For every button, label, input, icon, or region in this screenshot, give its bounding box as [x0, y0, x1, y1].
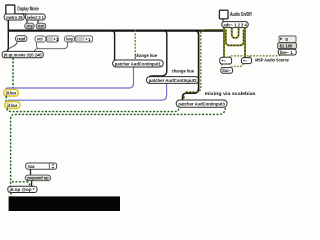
- wire main bang line horizontal: [8, 29, 225, 31]
- message prepend op: [25, 175, 50, 181]
- svg-text:select 0 1: select 0 1: [27, 15, 44, 20]
- wire select outlet1 to stop: [26, 20, 28, 23]
- svg-text:patcher AudContInput2: patcher AudContInput2: [149, 78, 198, 83]
- svg-text:jit.hue: jit.hue: [5, 91, 17, 96]
- number widget loop: [65, 36, 93, 43]
- object adc~ 1 2 3 4: [222, 22, 248, 28]
- svg-text:stop: stop: [26, 24, 33, 29]
- svg-text:adc~ 1 2 3 4: adc~ 1 2 3 4: [223, 22, 247, 27]
- object patcher AudContInput2: [146, 77, 199, 84]
- object line~: [278, 49, 296, 55]
- svg-text:$1 100: $1 100: [280, 43, 293, 48]
- object select 0 1: [25, 14, 45, 20]
- object patcher AudContInput1: [113, 60, 164, 67]
- object patcher AudContInput3: [176, 100, 227, 107]
- wire blue hue1 control: [6, 67, 134, 90]
- svg-text:0: 0: [285, 37, 288, 42]
- comment Audio On/Off: [230, 12, 252, 18]
- wire green lower loop patcher3 right outlet to jit.op: [11, 108, 226, 187]
- svg-text:vol: vol: [37, 37, 43, 42]
- wire adc out4 vertical signal: [244, 28, 246, 58]
- wire select outlet2 to start: [37, 20, 39, 23]
- wire mult left to dac: [221, 64, 223, 68]
- svg-text:read: read: [17, 36, 25, 41]
- object multiply right: [241, 58, 251, 64]
- toggle Audio On/Off: [219, 10, 228, 19]
- svg-text:mixing via scalebias: mixing via scalebias: [205, 91, 256, 97]
- wire adc outer U loop: [226, 30, 244, 46]
- svg-text:jit.qt.movie 320 240: jit.qt.movie 320 240: [3, 52, 42, 57]
- wire hue1 to hue2 green: [5, 96, 7, 102]
- toggle Display Movie: [6, 5, 15, 14]
- menu max: [26, 163, 57, 169]
- svg-text:*~: *~: [243, 58, 248, 63]
- wire movie matrix to jit.hue1 (green dashed): [12, 58, 14, 90]
- svg-text:start: start: [38, 24, 45, 29]
- comment MSP Audio Source: [255, 58, 289, 64]
- svg-text:1: 1: [88, 37, 91, 43]
- object jit.op: [8, 186, 37, 192]
- object multiply left: [220, 57, 232, 64]
- wire message to line~: [279, 48, 281, 51]
- object jit.hue 1: [4, 90, 19, 97]
- wire mult right to dac: [231, 64, 243, 68]
- wire number to message: [279, 41, 281, 44]
- svg-text:*~: *~: [222, 58, 227, 63]
- wire toggle2 to adc: [222, 19, 224, 22]
- svg-text:line~ 1.: line~ 1.: [280, 50, 294, 55]
- message $1 100: [278, 43, 297, 49]
- svg-text:change hue: change hue: [135, 53, 158, 59]
- object metro 25: [4, 14, 24, 20]
- comment change hue 2: [172, 68, 195, 74]
- wire prepend to jit.op: [31, 181, 33, 187]
- wire left vertical to movie inlet: [7, 31, 9, 52]
- comment change hue 1: [135, 53, 158, 59]
- message read: [15, 36, 27, 42]
- wire read outlet to movie: [7, 42, 17, 50]
- number widget vol: [35, 36, 59, 43]
- svg-text:jit.op @op *: jit.op @op *: [8, 187, 34, 192]
- svg-text:metro 25: metro 25: [6, 15, 23, 20]
- wire green hue2 out to patcher3 area upper: [7, 108, 179, 112]
- wire black curve to patcher2: [150, 31, 167, 77]
- wire metro outlet down: [7, 20, 9, 31]
- wire adc inner U loop: [232, 28, 239, 38]
- wire vol and loop outlets bundle: [35, 42, 68, 51]
- comment mixing via scalebias: [205, 91, 256, 97]
- svg-text:patcher AudContInput3: patcher AudContInput3: [178, 102, 225, 107]
- message start: [36, 23, 46, 29]
- svg-text:prepend op: prepend op: [27, 176, 49, 181]
- wire black bundle corner to patcher3: [183, 31, 199, 100]
- wire adc out1 vertical signal: [223, 28, 225, 58]
- svg-text:max: max: [28, 164, 35, 169]
- svg-text:MSP Audio Source: MSP Audio Source: [255, 58, 289, 64]
- wire green bundle to patcher3: [184, 30, 224, 100]
- svg-text:change hue: change hue: [172, 68, 195, 74]
- wire green drop to patcher1: [134, 30, 136, 60]
- wire black drop to patcher1: [111, 31, 115, 60]
- message stop: [25, 23, 34, 29]
- svg-text:1: 1: [56, 37, 59, 43]
- svg-text:Audio On/Off: Audio On/Off: [230, 12, 252, 18]
- wire toggle1 to select inlet: [10, 13, 27, 15]
- comment Display Movie: [17, 7, 39, 13]
- number box 0: [279, 36, 296, 42]
- svg-text:Display Movie: Display Movie: [17, 7, 39, 13]
- object jit.qt.movie 320 240: [2, 51, 43, 57]
- svg-text:dac~: dac~: [222, 68, 231, 73]
- wire menu to prepend: [30, 169, 32, 175]
- svg-text:loop: loop: [66, 37, 73, 42]
- jit.pwindow black display: [9, 196, 120, 211]
- object jit.hue 2: [5, 102, 20, 109]
- wire jit.op to pwindow: [10, 193, 12, 198]
- wire line~ feed to multiplies: [230, 55, 281, 58]
- wire blue hue2 control: [8, 83, 167, 101]
- object dac~: [221, 68, 233, 74]
- svg-text:jit.hue: jit.hue: [6, 103, 18, 108]
- svg-text:patcher AudContInput1: patcher AudContInput1: [115, 61, 162, 66]
